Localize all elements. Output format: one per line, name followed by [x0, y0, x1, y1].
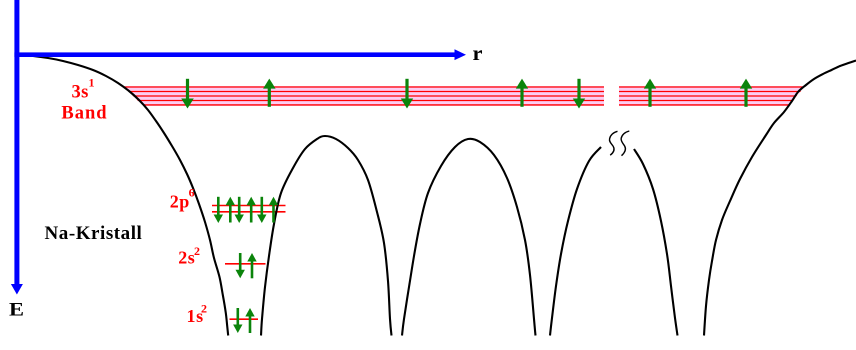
svg-text:Band: Band: [61, 104, 107, 124]
svg-text:3s: 3s: [72, 83, 89, 103]
svg-text:E: E: [9, 300, 24, 320]
svg-text:Na-Kristall: Na-Kristall: [45, 223, 143, 244]
svg-text:2: 2: [194, 244, 200, 258]
svg-text:r: r: [473, 41, 483, 65]
svg-text:2s: 2s: [178, 248, 195, 268]
svg-text:2: 2: [201, 302, 207, 316]
svg-text:6: 6: [189, 185, 195, 199]
svg-text:2p: 2p: [170, 191, 190, 211]
svg-text:1: 1: [89, 75, 95, 89]
